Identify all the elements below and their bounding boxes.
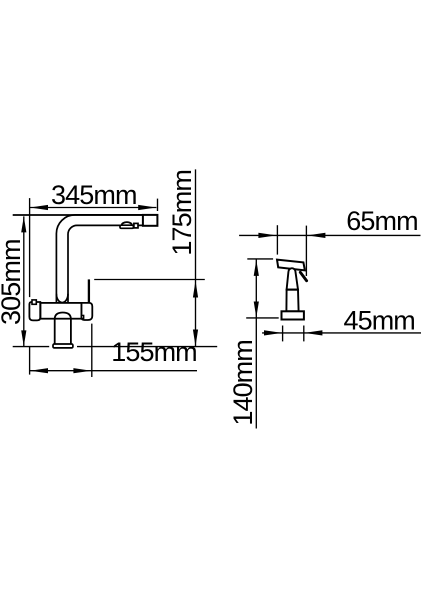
- svg-text:140mm: 140mm: [228, 340, 258, 426]
- svg-text:45mm: 45mm: [343, 306, 414, 336]
- svg-text:65mm: 65mm: [346, 206, 417, 236]
- svg-text:345mm: 345mm: [51, 180, 137, 210]
- svg-text:175mm: 175mm: [167, 170, 197, 256]
- svg-text:305mm: 305mm: [0, 239, 26, 325]
- svg-text:155mm: 155mm: [111, 337, 197, 367]
